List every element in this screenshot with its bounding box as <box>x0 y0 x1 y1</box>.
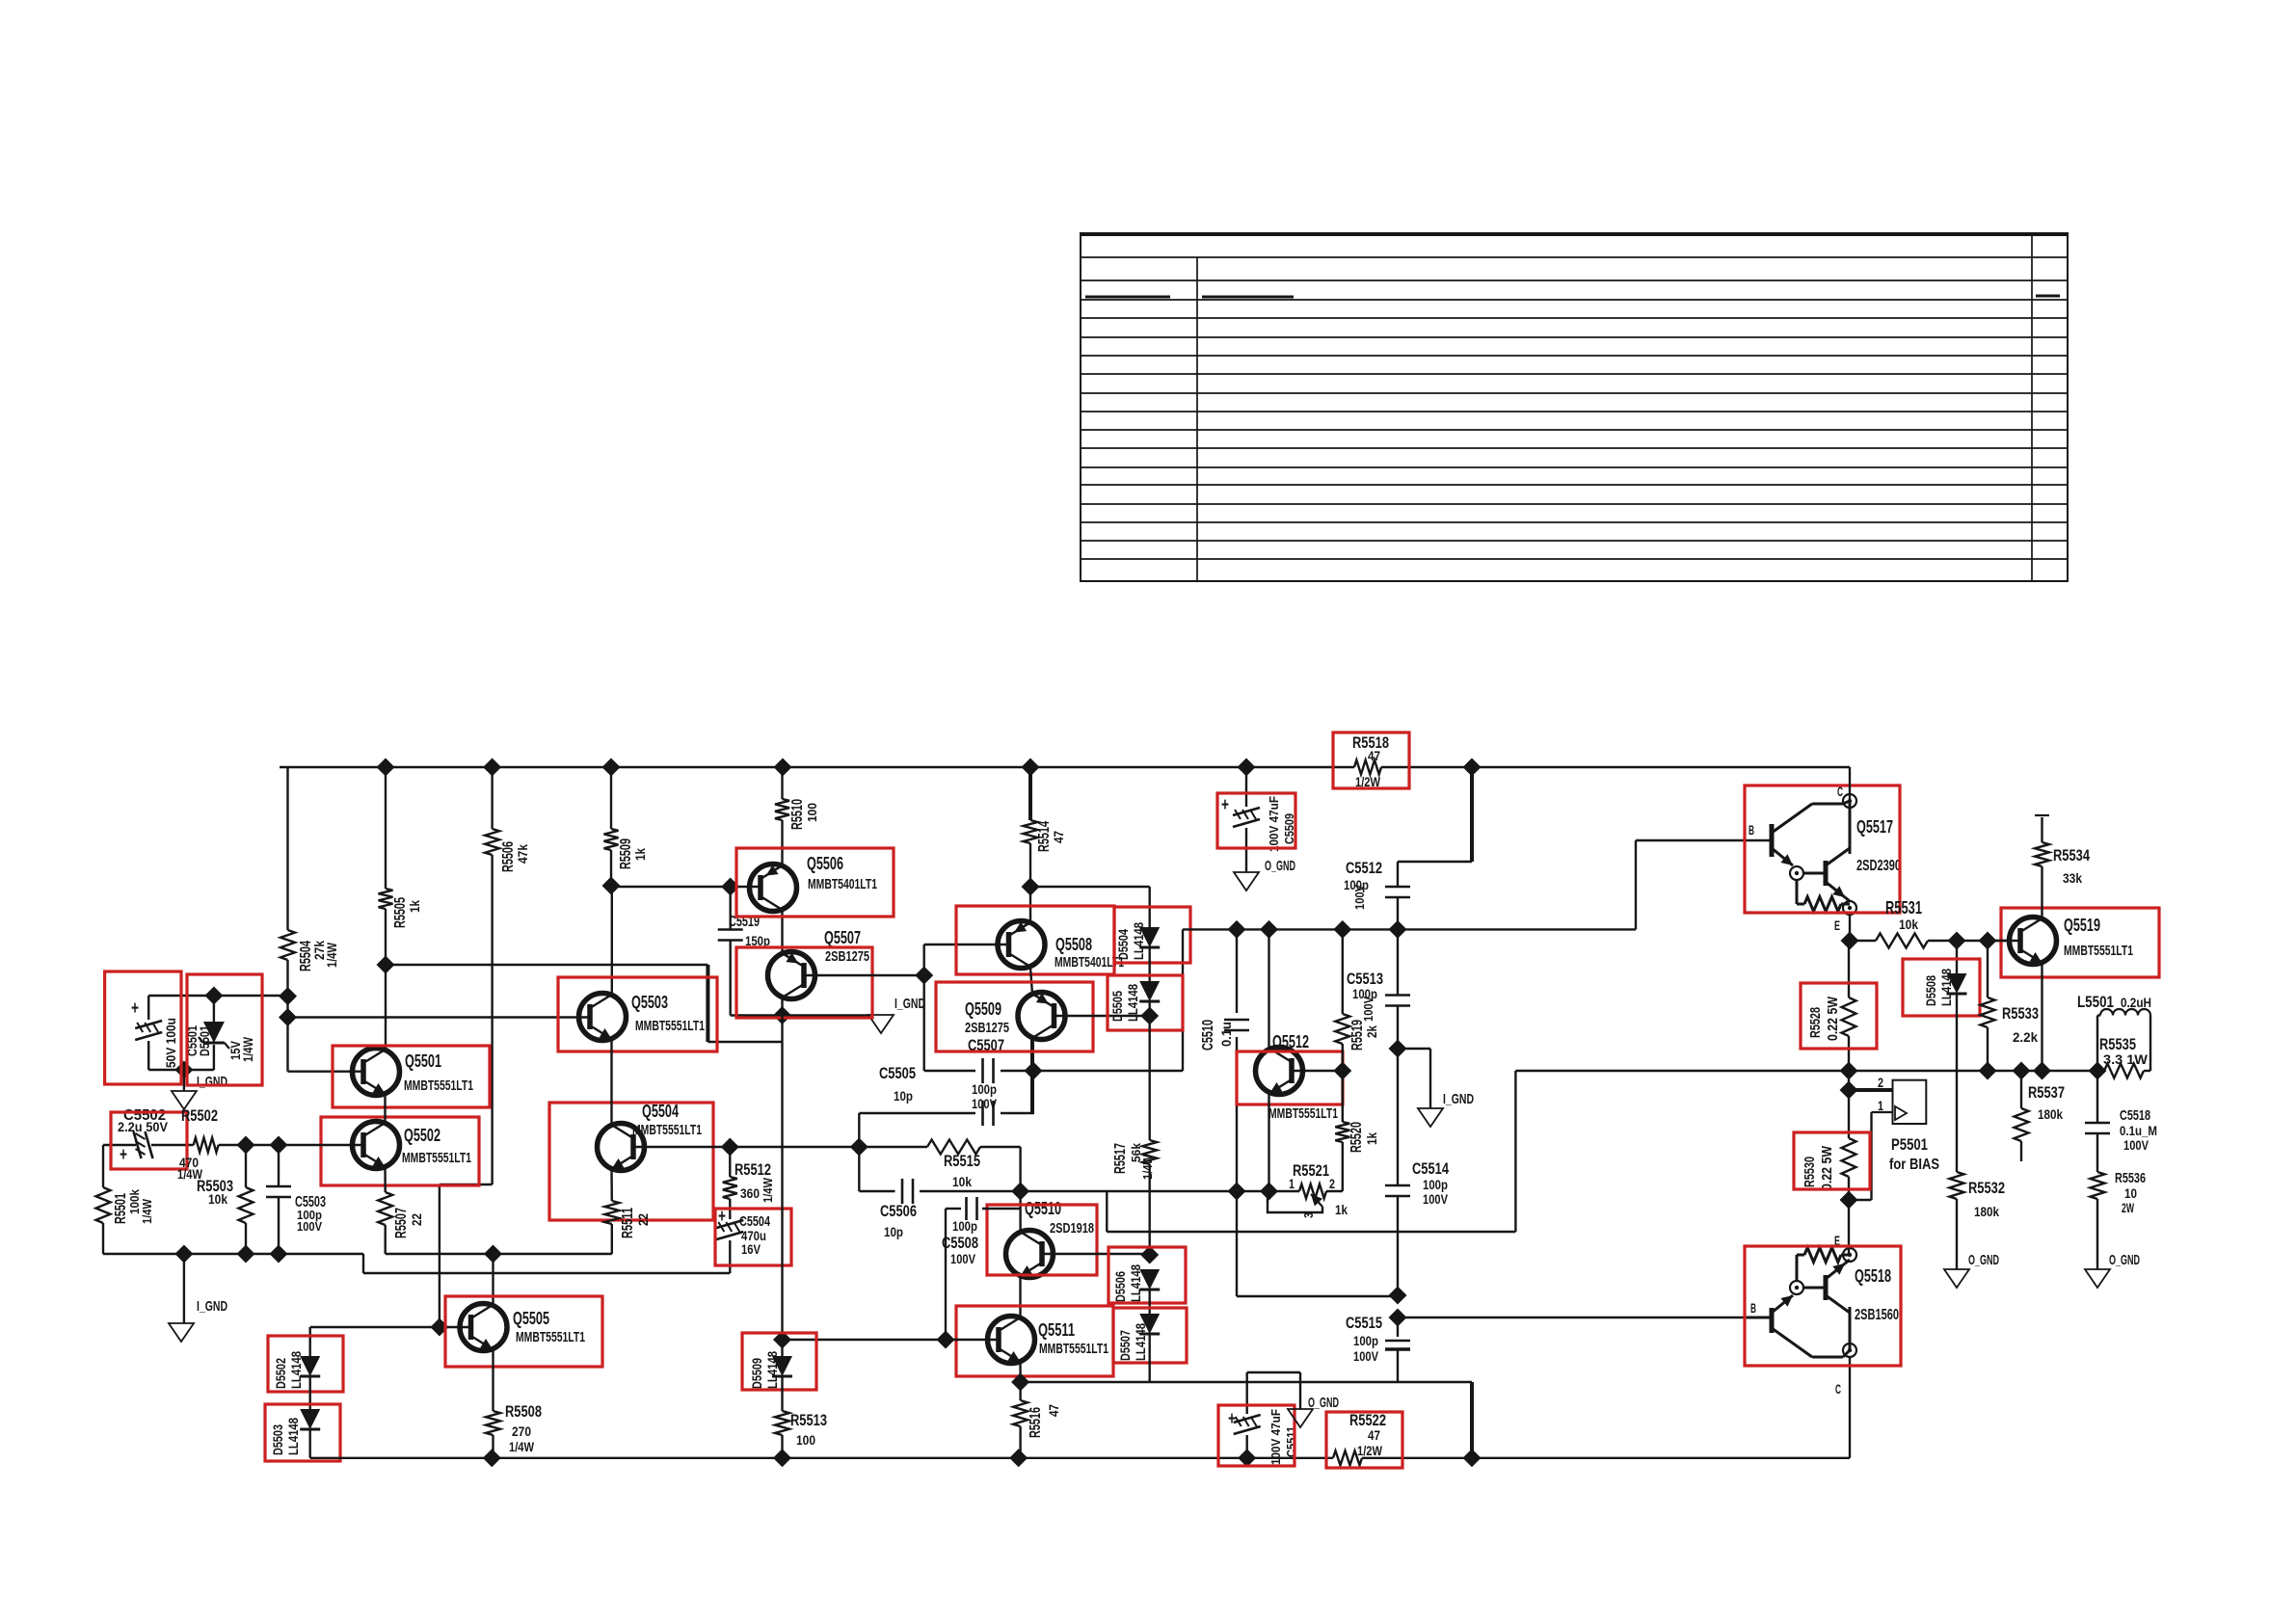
red box Q5519 <box>2001 908 2159 977</box>
resistor R5502 470 1/4W <box>177 1106 219 1182</box>
junction R5505 bottom node <box>377 956 395 974</box>
wire C5510 column <box>1237 929 1398 1296</box>
capacitor C5507 100p 100V <box>972 1058 998 1111</box>
red box C5511 <box>1218 1405 1295 1466</box>
wire Q5506 base row <box>611 886 760 888</box>
wire R5505 column <box>385 767 387 1050</box>
capacitor C5508 100p 100V <box>942 1197 1021 1340</box>
junction nodes mid rail <box>1228 920 1407 939</box>
resistor R5506 47k <box>485 829 530 872</box>
svg-text:+: + <box>1221 795 1229 815</box>
transistor Q5518 2SB1560 darlington <box>1747 1233 1899 1397</box>
zener diode D5501 15V 1/4W <box>199 996 255 1062</box>
svg-text:MMBT5551LT1: MMBT5551LT1 <box>1039 1341 1108 1357</box>
svg-text:R5531: R5531 <box>1885 898 1922 918</box>
capacitor C5505 10p <box>879 1064 994 1126</box>
red box Q5517 <box>1745 785 1900 913</box>
svg-text:LL4148: LL4148 <box>1133 1323 1148 1361</box>
svg-text:LL4148: LL4148 <box>1128 1264 1143 1302</box>
wire Q5510 collector <box>1019 1191 1021 1232</box>
wire Q5503 base row <box>288 1016 590 1018</box>
red box Q5504 <box>549 1103 713 1220</box>
capacitor C5519 150p <box>718 887 783 1016</box>
wire Q5504 emitter to R5511 <box>610 1169 613 1201</box>
svg-text:0.22 5W: 0.22 5W <box>1825 996 1841 1041</box>
red box Q5501 <box>333 1046 490 1107</box>
svg-text:Q5501: Q5501 <box>405 1051 441 1071</box>
svg-text:D5504: D5504 <box>1115 929 1131 960</box>
svg-text:22: 22 <box>409 1213 424 1226</box>
wire Q5511 emitter <box>1019 1362 1021 1382</box>
svg-text:1/2W: 1/2W <box>1357 1443 1383 1458</box>
svg-text:B: B <box>1750 1300 1756 1316</box>
wire Q5505 collector riser <box>492 1254 494 1305</box>
red box C5509 <box>1217 793 1295 848</box>
svg-text:47: 47 <box>1046 1404 1061 1417</box>
transistor Q5512 MMBT5551LT1 <box>1256 1032 1339 1122</box>
resistor R5536 10 2W <box>2091 1170 2147 1269</box>
resistor R5510 100 <box>775 799 819 830</box>
junction D5506 top <box>1140 1246 1159 1264</box>
diode D5506 LL4148 <box>1112 1264 1160 1302</box>
capacitor C5504 470u 16V <box>716 1207 770 1257</box>
wire R5510 column <box>781 767 783 865</box>
svg-text:C5508: C5508 <box>942 1234 978 1252</box>
wire feedback row <box>1107 1071 1515 1232</box>
wire mid rail <box>1183 840 1770 929</box>
svg-text:D5508: D5508 <box>1923 975 1938 1006</box>
wire Q5517 emitter down <box>1849 916 1851 941</box>
node O_GND under R5532 <box>1944 1252 1999 1288</box>
resistor R5531 10k <box>1876 898 1928 948</box>
svg-text:C5512: C5512 <box>1346 859 1382 877</box>
transistor Q5509 2SB1275 <box>965 993 1065 1055</box>
svg-text:0.22 5W: 0.22 5W <box>1819 1145 1835 1190</box>
svg-text:LL4148: LL4148 <box>1938 969 1954 1006</box>
svg-text:100p: 100p <box>952 1218 977 1234</box>
svg-text:MMBT5551LT1: MMBT5551LT1 <box>1268 1105 1338 1122</box>
wire D5509 to R5513 <box>781 1376 783 1411</box>
svg-text:10p: 10p <box>884 1224 903 1239</box>
svg-text:22: 22 <box>635 1213 651 1226</box>
red box D5502 <box>268 1336 343 1392</box>
junction zener node <box>279 987 297 1026</box>
svg-text:Q5502: Q5502 <box>404 1126 441 1145</box>
red box Q5511 <box>956 1306 1113 1376</box>
junction I_GND rail <box>174 1245 287 1264</box>
transistor Q5504 MMBT5551LT1 <box>598 1102 703 1171</box>
wire Q5507 base <box>804 974 924 976</box>
svg-text:100V: 100V <box>2123 1137 2149 1153</box>
diode D5502 LL4148 <box>273 1351 320 1389</box>
red box C5501 <box>105 971 181 1084</box>
node I_GND near Q5507 <box>868 996 925 1033</box>
svg-text:MMBT5551LT1: MMBT5551LT1 <box>2064 943 2133 959</box>
wire Q5510 base <box>1043 1253 1150 1255</box>
svg-text:R5521: R5521 <box>1293 1161 1329 1180</box>
svg-text:B: B <box>1749 822 1754 838</box>
capacitor C5514 100p 100V <box>1385 1049 1449 1295</box>
svg-text:C5514: C5514 <box>1412 1159 1449 1178</box>
resistor R5517 56k 1/4W <box>1112 1140 1157 1180</box>
junction nodes on V+ rail <box>377 758 1482 777</box>
svg-text:100V: 100V <box>1353 1348 1379 1364</box>
red box D5503 <box>265 1404 340 1461</box>
wire V+ top rail <box>280 766 1850 768</box>
capacitor C5502 2.2u 50V <box>118 1107 169 1165</box>
svg-text:2SB1560: 2SB1560 <box>1855 1307 1899 1323</box>
junction Q5507 collector node <box>773 1006 791 1024</box>
svg-text:I_GND: I_GND <box>197 1074 227 1090</box>
svg-text:Q5518: Q5518 <box>1855 1266 1891 1286</box>
potentiometer R5521 1k <box>1268 1161 1348 1218</box>
resistor R5503 10k <box>197 1145 254 1254</box>
svg-text:47: 47 <box>1368 748 1380 763</box>
wire thick riser top <box>1398 767 1472 862</box>
wire R5517 to D5506 <box>1148 1164 1150 1255</box>
svg-text:I_GND: I_GND <box>894 996 925 1012</box>
red box D5507 <box>1113 1308 1187 1363</box>
wire Q5510 emitter to Q5511 collector <box>1019 1276 1021 1317</box>
transistor Q5510 2SD1918 <box>1006 1199 1095 1278</box>
svg-text:+: + <box>120 1145 127 1165</box>
svg-text:C5510: C5510 <box>1200 1020 1216 1051</box>
junction D5509 top <box>773 1331 791 1349</box>
node I_GND under D5501 <box>172 1074 227 1109</box>
svg-text:O_GND: O_GND <box>2109 1252 2140 1268</box>
svg-text:Q5517: Q5517 <box>1856 817 1893 837</box>
svg-text:2.2k: 2.2k <box>2013 1029 2038 1045</box>
svg-text:O_GND: O_GND <box>1265 858 1295 874</box>
svg-text:100p: 100p <box>972 1081 997 1097</box>
svg-text:2SD1918: 2SD1918 <box>1050 1220 1094 1237</box>
wire output mid rail right <box>1515 1070 2097 1072</box>
red box R5528 <box>1801 983 1877 1049</box>
red box Q5509 <box>936 982 1093 1051</box>
diode D5508 LL4148 <box>1923 941 1967 1006</box>
svg-text:2SD2390: 2SD2390 <box>1856 858 1901 874</box>
svg-text:33k: 33k <box>2063 870 2082 886</box>
svg-text:C5515: C5515 <box>1346 1314 1382 1332</box>
svg-text:10k: 10k <box>1899 917 1918 932</box>
resistor R5512 360 1/4W <box>723 1147 775 1219</box>
wire R5506 to Q5505 base <box>440 767 493 1327</box>
red box Q5508 <box>956 906 1114 974</box>
wire R5521 row <box>859 1147 1268 1191</box>
svg-text:1: 1 <box>1878 1098 1883 1113</box>
svg-text:2SB1275: 2SB1275 <box>825 948 869 965</box>
junction nodes R5531 row <box>1841 932 1997 950</box>
transistor Q5505 MMBT5551LT1 <box>460 1304 585 1351</box>
svg-text:LL4148: LL4148 <box>764 1351 780 1389</box>
wire Q5518 base long wire <box>1398 1317 1770 1318</box>
diode D5504 LL4148 <box>1115 922 1160 960</box>
svg-text:100p: 100p <box>1423 1177 1448 1192</box>
inductor L5501 0.2uH <box>2077 993 2151 1071</box>
svg-text:100V: 100V <box>972 1096 998 1111</box>
svg-text:2W: 2W <box>2122 1200 2134 1215</box>
transistor Q5501 MMBT5551LT1 <box>353 1049 474 1096</box>
wire Q5509 emitter riser <box>1030 1038 1034 1113</box>
resistor R5519 2k <box>1335 929 1379 1071</box>
wire Q5517 collector to rail <box>1849 767 1851 801</box>
transistor Q5503 MMBT5551LT1 <box>579 993 706 1041</box>
svg-text:2: 2 <box>1329 1176 1335 1191</box>
connector P5501 for BIAS <box>1849 1075 1939 1200</box>
svg-text:100V 47uF: 100V 47uF <box>1267 796 1281 852</box>
svg-text:1/4W: 1/4W <box>509 1439 535 1454</box>
wire Q5506 collector to Q5507 emitter <box>781 910 783 953</box>
svg-text:1/4W: 1/4W <box>140 1198 154 1224</box>
junction Q5511 base <box>937 1331 955 1349</box>
transistor Q5506 MMBT5401LT1 <box>750 854 878 912</box>
svg-text:270: 270 <box>512 1423 531 1439</box>
svg-text:100V 47uF: 100V 47uF <box>1268 1409 1283 1465</box>
wire D5508 to R5532 <box>1956 994 1958 1172</box>
svg-text:1/4W: 1/4W <box>240 1036 255 1062</box>
svg-text:10k: 10k <box>208 1191 227 1207</box>
resistor R5516 47 <box>1013 1382 1061 1458</box>
junction base row <box>721 1138 868 1157</box>
svg-text:Q5506: Q5506 <box>807 854 843 873</box>
svg-text:0.2uH: 0.2uH <box>2121 995 2151 1010</box>
red box D5501 <box>187 974 262 1085</box>
svg-text:R5508: R5508 <box>505 1402 542 1421</box>
svg-text:Q5508: Q5508 <box>1055 935 1092 954</box>
capacitor C5513 100p 100V <box>1347 929 1410 1049</box>
svg-text:Q5510: Q5510 <box>1025 1199 1061 1218</box>
junction Q5512 base node <box>1333 1062 1351 1080</box>
red box R5518 <box>1333 732 1409 788</box>
transistor Q5519 MMBT5551LT1 <box>2010 916 2134 965</box>
junction C5513 bottom <box>1389 1040 1407 1058</box>
resistor R5535 3.3 1W <box>2099 1035 2150 1078</box>
wire R5504 column / zener node <box>288 767 364 1072</box>
resistor R5508 270 1/4W <box>486 1402 542 1458</box>
capacitor C5512 100p 100V <box>1344 859 1410 929</box>
wire C5501/D5501 bottom <box>148 1041 214 1091</box>
capacitor C5515 100p 100V <box>1346 1314 1410 1382</box>
node O_GND under R5536 <box>2085 1252 2140 1288</box>
junction Q5511 emitter node <box>1011 1373 1029 1392</box>
red box Q5507 <box>736 947 872 1018</box>
wire Q5508 emitter branch <box>1030 887 1150 927</box>
svg-text:Q5509: Q5509 <box>965 999 1001 1019</box>
svg-text:C5505: C5505 <box>879 1064 916 1082</box>
svg-text:1k: 1k <box>1364 1132 1379 1145</box>
wire Q5508 collector to Q5509 <box>1030 968 1032 994</box>
svg-text:D5503: D5503 <box>270 1424 285 1455</box>
junction input row <box>237 1136 288 1155</box>
svg-text:E: E <box>1834 918 1840 933</box>
resistor R5520 1k <box>1335 1071 1379 1191</box>
svg-text:47k: 47k <box>515 844 530 864</box>
svg-text:C5511: C5511 <box>1284 1426 1298 1457</box>
svg-text:0.1u_M: 0.1u_M <box>2120 1123 2157 1138</box>
svg-text:16V: 16V <box>741 1241 761 1257</box>
svg-text:+: + <box>1228 1409 1236 1429</box>
svg-text:1/4W: 1/4W <box>761 1177 775 1203</box>
resistor R5518 47 1/2W <box>1352 733 1389 789</box>
junction nodes output rail <box>1840 1062 2107 1080</box>
svg-text:R5537: R5537 <box>2028 1083 2065 1102</box>
svg-text:R5511: R5511 <box>620 1208 636 1238</box>
wire R5531 row <box>1850 940 2010 942</box>
svg-text:R5502: R5502 <box>181 1106 218 1125</box>
red box D5508 <box>1903 959 1980 1016</box>
svg-text:1k: 1k <box>407 900 422 913</box>
svg-text:L5501: L5501 <box>2077 993 2114 1011</box>
junction nodes bottom rail <box>483 1449 1482 1467</box>
wire Q5507 collector down <box>781 998 783 1016</box>
junction C5507 right <box>1025 1062 1043 1080</box>
resistor R5532 180k <box>1950 1172 2006 1269</box>
red box R5522 <box>1326 1412 1402 1468</box>
svg-text:R5533: R5533 <box>2002 1004 2039 1023</box>
svg-text:MMBT5551LT1: MMBT5551LT1 <box>635 1018 705 1034</box>
svg-text:MMBT5551LT1: MMBT5551LT1 <box>516 1329 585 1345</box>
svg-text:1/4W: 1/4W <box>1140 1154 1155 1180</box>
capacitor C5501 <box>131 996 212 1068</box>
svg-text:D5502: D5502 <box>273 1358 288 1389</box>
svg-text:MMBT5551LT1: MMBT5551LT1 <box>402 1150 471 1166</box>
svg-text:R5507: R5507 <box>393 1208 410 1238</box>
capacitor C5518 0.1u_M 100V <box>2085 1071 2157 1172</box>
svg-text:LL4148: LL4148 <box>1125 984 1140 1022</box>
svg-text:2k: 2k <box>1364 1025 1379 1038</box>
wire Q5501 emitter to Q5502 collector <box>384 1094 386 1123</box>
svg-text:R5532: R5532 <box>1968 1179 2005 1197</box>
svg-text:50V 100u: 50V 100u <box>163 1018 178 1068</box>
wire I_GND stub <box>183 1254 185 1323</box>
red box C5502 <box>111 1112 187 1169</box>
svg-text:R5517: R5517 <box>1112 1143 1129 1174</box>
svg-text:LL4148: LL4148 <box>1131 922 1146 960</box>
red box Q5502 <box>321 1117 479 1185</box>
svg-text:MMBT5551LT1: MMBT5551LT1 <box>404 1078 473 1094</box>
wire Q5502 emitter to R5507 <box>384 1167 387 1192</box>
svg-text:LL4148: LL4148 <box>288 1351 304 1389</box>
svg-text:1k: 1k <box>632 848 648 861</box>
svg-text:3: 3 <box>1301 1212 1316 1218</box>
resistor R5513 100 <box>775 1411 827 1458</box>
junction Q5505 collector <box>484 1245 502 1264</box>
junction R5514 bottom <box>1022 878 1040 896</box>
red box Q5510 <box>987 1205 1097 1275</box>
svg-text:D5507: D5507 <box>1117 1330 1133 1361</box>
junction Q5507/Q5508 base tie <box>915 967 933 985</box>
svg-text:R5534: R5534 <box>2053 846 2090 865</box>
wire I_GND collector node <box>783 1014 869 1016</box>
svg-text:47: 47 <box>1368 1427 1380 1443</box>
wire Q5512 base <box>1293 1070 1343 1072</box>
svg-text:O_GND: O_GND <box>1968 1252 1999 1268</box>
svg-text:100V: 100V <box>1352 885 1367 910</box>
junction Q5506 base / C5519 <box>721 878 739 896</box>
wire input node row <box>103 1145 363 1187</box>
wire R5509 column / Q5503 collector <box>610 767 613 994</box>
junction C5501/D5501 bottom <box>174 1061 193 1079</box>
svg-text:R5536: R5536 <box>2115 1170 2146 1186</box>
junction R5509 bottom <box>602 877 621 895</box>
svg-text:100V: 100V <box>1423 1191 1449 1207</box>
wire Q5519 collector <box>2041 866 2042 918</box>
svg-text:Q5512: Q5512 <box>1272 1032 1309 1051</box>
wire Q5504 base row <box>632 1147 1021 1191</box>
resistor R5530 0.22 5W <box>1802 1071 1856 1254</box>
red box D5509 <box>742 1333 816 1390</box>
svg-text:2: 2 <box>1878 1075 1883 1090</box>
transistor Q5508 MMBT5401LT1 <box>998 921 1124 971</box>
wire C5507 row <box>924 1070 1034 1072</box>
svg-text:10: 10 <box>2124 1185 2137 1201</box>
svg-text:180k: 180k <box>1974 1204 1999 1219</box>
svg-text:Q5519: Q5519 <box>2064 916 2100 935</box>
svg-text:100: 100 <box>805 803 819 822</box>
red box C5504 <box>715 1209 791 1265</box>
capacitor C5511 100V 47uF <box>1228 1372 1300 1465</box>
svg-text:+: + <box>131 998 139 1019</box>
red box Q5512 <box>1237 1051 1343 1104</box>
resistor R5505 1k <box>379 889 423 928</box>
junction Q5509 base node <box>1140 1007 1159 1025</box>
svg-text:1: 1 <box>1289 1176 1295 1191</box>
red box D5505 <box>1108 975 1183 1030</box>
wire Q5512 emitter <box>1268 1093 1269 1191</box>
capacitor C5506 10p <box>880 1179 917 1239</box>
wire Q5512 collector <box>1268 929 1269 1049</box>
resistor R5507 22 <box>378 1192 424 1238</box>
transistor Q5511 MMBT5551LT1 <box>988 1317 1109 1364</box>
revision table <box>1081 233 2068 581</box>
node I_GND lower left <box>169 1298 227 1342</box>
svg-text:C5518: C5518 <box>2120 1107 2150 1124</box>
resistor R5533 2.2k <box>1981 941 2040 1071</box>
junction D5501 top <box>204 987 223 1005</box>
wire Q5503 emitter to Q5504 collector <box>610 1039 612 1125</box>
red box D5506 <box>1108 1247 1186 1303</box>
capacitor C5509 100V 47uF <box>1221 767 1296 872</box>
resistor R5528 0.22 5W <box>1807 941 1856 1071</box>
svg-text:I_GND: I_GND <box>197 1298 227 1315</box>
wire D5506-D5507 <box>1148 1290 1150 1314</box>
svg-text:Q5505: Q5505 <box>513 1309 549 1328</box>
svg-text:R5513: R5513 <box>790 1411 827 1429</box>
svg-text:3.3 1W: 3.3 1W <box>2103 1051 2149 1067</box>
svg-text:360: 360 <box>740 1185 760 1201</box>
red box D5504 <box>1114 907 1190 963</box>
junction P5501 taps <box>1840 1081 1858 1210</box>
svg-text:R5528: R5528 <box>1807 1007 1824 1038</box>
red box Q5505 <box>445 1296 602 1367</box>
red box Q5506 <box>736 848 894 917</box>
wire output bottom rail <box>310 1358 1850 1458</box>
svg-text:P5501: P5501 <box>1891 1135 1928 1154</box>
wire Q5505 emitter <box>492 1349 494 1411</box>
svg-text:Q5504: Q5504 <box>642 1102 679 1121</box>
node O_GND top <box>1234 858 1295 891</box>
resistor R5534 33k <box>2035 815 2090 886</box>
svg-text:R5530: R5530 <box>1802 1157 1818 1187</box>
resistor R5509 1k <box>604 829 649 869</box>
wire C5505 branch <box>859 1113 1034 1147</box>
svg-text:D5505: D5505 <box>1109 991 1125 1022</box>
wire C5501/D5501 top <box>148 995 287 997</box>
resistor R5522 47 1/2W <box>1333 1411 1386 1465</box>
svg-text:2SB1275: 2SB1275 <box>965 1020 1009 1036</box>
resistor R5511 22 <box>604 1201 651 1254</box>
svg-text:D5509: D5509 <box>749 1358 764 1389</box>
